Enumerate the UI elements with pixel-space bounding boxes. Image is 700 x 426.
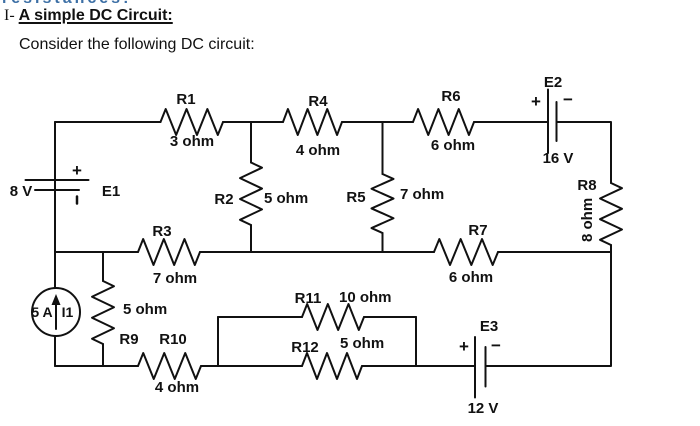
wire: parallel box left vertical (bottom rail up to R11 branch) [217,317,219,366]
subtitle: Consider the following DC circuit: [19,36,255,54]
svg-text:R2: R2 [214,191,233,208]
wire: bottom rail R12 to E3 positive plate (through parallel-box right node) [362,365,475,367]
current source I1 circle [32,288,80,336]
svg-text:R12: R12 [291,339,319,356]
resistor R7 [434,239,498,265]
svg-text:7 ohm: 7 ohm [153,270,197,287]
svg-text:E1: E1 [102,183,120,200]
svg-text:4 ohm: 4 ohm [296,142,340,159]
battery E1 short (negative) plate [35,189,79,191]
svg-text:+: + [459,337,469,356]
svg-text:6 ohm: 6 ohm [431,137,475,154]
svg-text:R9: R9 [119,331,138,348]
svg-text:4 ohm: 4 ohm [155,379,199,396]
wire: left rail, E1 branch (top plate down through battery to middle rail) [54,122,56,252]
svg-text:R10: R10 [159,331,187,348]
wire: E2 negative plate to top-right corner, down to R8 [557,122,612,183]
svg-text:10 ohm: 10 ohm [339,289,392,306]
resistor R1 [161,109,224,135]
svg-text:5 ohm: 5 ohm [264,190,308,207]
wire: bottom rail R10 to R12 (through parallel-box left node) [201,365,302,367]
wire: top rail left segment (top-left corner to R1) [55,122,161,190]
clipped blue heading remnant at top edge [2,0,182,4]
wire: R9 branch top lead [102,252,104,281]
wire: R2 branch top lead [250,122,252,163]
wire: parallel box right vertical (R11 branch down to bottom rail) [415,317,417,366]
wire: middle rail left segment (left rail to R3, through R9 node) [55,251,138,253]
svg-text:8 V: 8 V [10,183,33,200]
svg-text:R8: R8 [577,177,596,194]
svg-text:R1: R1 [176,91,195,108]
svg-text:−: − [563,90,573,109]
resistor R12 [302,353,362,379]
battery E2 short (negative) plate [556,102,558,141]
wire: R11 branch right lead [364,316,416,318]
wire: R5 branch top lead [382,122,384,174]
resistor R9 [92,281,114,344]
wire: middle rail R7 to right rail [498,251,611,253]
svg-text:R6: R6 [441,88,460,105]
svg-text:7 ohm: 7 ohm [400,186,444,203]
wire: R5 branch bottom lead [382,233,384,252]
svg-text:5 A: 5 A [31,304,52,320]
battery E3 short (negative) plate [485,347,487,387]
wire: right rail R8 bottom to middle rail junction [610,245,612,252]
resistor R8 [600,183,622,245]
svg-text:E2: E2 [544,74,562,91]
wire: left rail, middle rail down to current source I1 [54,252,56,288]
battery E2 long (positive) plate [547,90,549,154]
wire: top rail R1 to R4 (through node at top of R2) [223,121,283,123]
svg-text:E3: E3 [480,318,498,335]
resistor R3 [138,239,200,265]
svg-text:5 ohm: 5 ohm [123,301,167,318]
wire: left rail, I1 bottom to bottom-left corner [54,336,56,366]
wire: middle rail R3 to R7 (through bottoms of R2 and R5) [200,251,434,253]
wire: bottom rail left segment (corner to R10, through R9 bottom node) [55,365,138,367]
svg-text:I1: I1 [62,304,74,320]
current source I1 arrow [55,301,57,329]
svg-text:R11: R11 [295,290,322,307]
battery E1 long (positive) plate [26,179,89,181]
wire: top rail R4 to R6 (through node at top of R5) [342,121,413,123]
svg-text:5 ohm: 5 ohm [340,335,384,352]
svg-text:R5: R5 [346,189,365,206]
resistor R10 [138,353,201,379]
svg-text:8 ohm: 8 ohm [579,198,596,242]
wire: top rail R6 to E2 positive plate [474,121,548,123]
resistor R6 [413,109,474,135]
wire: right rail middle junction down to bottom-right corner, left to E3 [486,252,611,366]
resistor R4 [283,109,342,135]
label minus (E1 polarity, vertical tick) [76,197,79,204]
svg-text:+: + [72,161,82,180]
resistor R2 [240,163,262,226]
svg-text:R4: R4 [308,93,328,110]
resistor R11 [302,304,364,330]
svg-text:3 ohm: 3 ohm [170,133,214,150]
battery E3 long (positive) plate [474,337,476,398]
resistor R5 [372,174,394,233]
heading: I- A simple DC Circuit: [4,7,173,25]
svg-text:+: + [531,92,541,111]
wire: R2 branch bottom lead [250,225,252,252]
svg-text:16 V: 16 V [543,150,574,167]
svg-text:12 V: 12 V [468,400,499,417]
svg-text:R7: R7 [468,222,487,239]
wire: R9 branch bottom lead [102,344,104,366]
svg-text:−: − [491,336,501,355]
svg-text:6 ohm: 6 ohm [449,269,493,286]
svg-text:R3: R3 [152,223,171,240]
wire: R11 branch left lead [218,316,302,318]
